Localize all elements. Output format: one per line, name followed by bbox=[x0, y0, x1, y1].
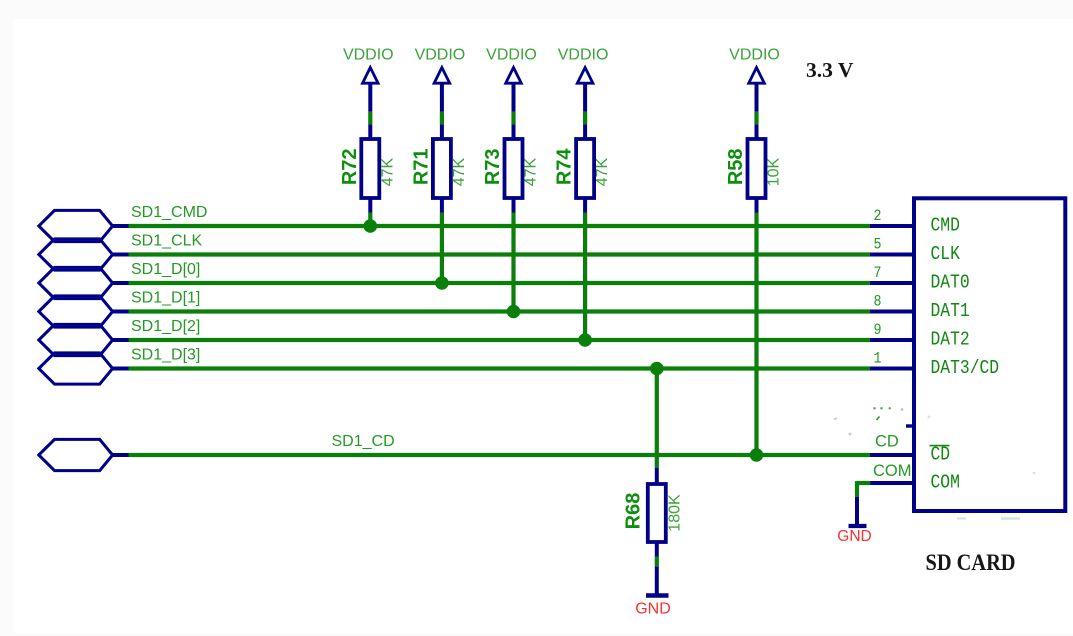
wire net SD1_CLK bbox=[129, 252, 871, 256]
wire R58 to net bbox=[754, 213, 758, 456]
svg-text:SD1_CMD: SD1_CMD bbox=[131, 204, 207, 221]
resistor R74 bbox=[554, 124, 594, 212]
junction at R73 column bbox=[507, 305, 521, 319]
svg-text:8: 8 bbox=[874, 293, 882, 311]
wire COM to GND bbox=[857, 481, 870, 524]
unconnected pin stub (WP) bbox=[906, 424, 914, 427]
resistor R73 bbox=[482, 124, 522, 212]
port connector for net SD1_CMD bbox=[39, 210, 129, 241]
pin stub pin 8 of SD CARD bbox=[870, 310, 914, 314]
svg-text:R68: R68 bbox=[622, 493, 644, 530]
svg-text:R72: R72 bbox=[339, 148, 361, 185]
power symbol VDDIO (R73 column) bbox=[486, 46, 537, 112]
wire net SD1_D[3] bbox=[129, 366, 871, 370]
artifact marks bbox=[834, 407, 1035, 518]
wire VDDIO to R71 bbox=[440, 112, 444, 125]
svg-text:3.3 V: 3.3 V bbox=[806, 58, 854, 82]
svg-text:1: 1 bbox=[874, 350, 882, 368]
power symbol VDDIO (R72 column) bbox=[343, 46, 394, 112]
pin stub pin 5 of SD CARD bbox=[870, 253, 914, 257]
svg-text:GND: GND bbox=[837, 528, 871, 545]
wire R68 to GND bbox=[655, 557, 659, 594]
pin stub pin 7 of SD CARD bbox=[870, 281, 914, 285]
svg-text:SD1_CLK: SD1_CLK bbox=[131, 233, 202, 250]
svg-text:R71: R71 bbox=[411, 148, 433, 185]
svg-text:47K: 47K bbox=[594, 157, 611, 186]
ground GND (COM) bbox=[837, 526, 871, 545]
junction at R71 column bbox=[435, 276, 449, 290]
svg-text:CD: CD bbox=[931, 444, 951, 466]
wire net SD1_D[1] bbox=[129, 309, 871, 313]
power symbol VDDIO (R71 column) bbox=[415, 46, 466, 112]
svg-text:CLK: CLK bbox=[931, 243, 961, 265]
svg-text:47K: 47K bbox=[523, 157, 540, 186]
svg-text:SD1_D[0]: SD1_D[0] bbox=[131, 261, 200, 278]
wire net SD1_D[2] bbox=[129, 338, 871, 342]
pin stub pin 2 of SD CARD bbox=[870, 224, 914, 228]
svg-text:VDDIO: VDDIO bbox=[486, 46, 537, 63]
port connector for net SD1_D[2] bbox=[39, 324, 129, 355]
svg-text:VDDIO: VDDIO bbox=[415, 46, 466, 63]
svg-text:DAT0: DAT0 bbox=[931, 272, 970, 294]
svg-text:SD1_D[3]: SD1_D[3] bbox=[131, 347, 200, 364]
pin stub pin 1 of SD CARD bbox=[870, 367, 914, 371]
wire R72 to net bbox=[368, 213, 372, 227]
svg-text:R73: R73 bbox=[482, 148, 504, 185]
resistor R58 bbox=[725, 124, 765, 212]
svg-text:47K: 47K bbox=[379, 157, 396, 186]
resistor R72 bbox=[339, 124, 379, 212]
pin stub pin CD of SD CARD bbox=[870, 453, 914, 457]
svg-text:COM: COM bbox=[931, 472, 960, 494]
svg-text:CMD: CMD bbox=[931, 215, 960, 237]
svg-text:GND: GND bbox=[635, 601, 671, 618]
junction at R68 column on SD1_D[3] bbox=[650, 362, 664, 376]
svg-text:180K: 180K bbox=[666, 494, 683, 532]
svg-text:COM: COM bbox=[873, 462, 912, 480]
junction at R72 column bbox=[364, 219, 378, 233]
port connector for net SD1_D[3] bbox=[39, 353, 129, 384]
svg-text:VDDIO: VDDIO bbox=[558, 46, 609, 63]
ground GND (R68) bbox=[635, 596, 671, 618]
svg-text:5: 5 bbox=[874, 236, 882, 254]
svg-text:R58: R58 bbox=[725, 148, 747, 185]
junction at R58 column bbox=[750, 448, 764, 462]
svg-text:R74: R74 bbox=[554, 148, 576, 186]
port connector for net SD1_CD bbox=[39, 439, 129, 470]
pin name CD (active low) bbox=[930, 444, 951, 466]
wire VDDIO to R72 bbox=[368, 112, 372, 125]
wire net SD1_CMD bbox=[129, 224, 871, 228]
resistor R71 bbox=[411, 124, 451, 212]
wire R74 to net bbox=[583, 213, 587, 341]
wire net SD1_CD bbox=[129, 453, 871, 457]
power symbol VDDIO (R58 column) bbox=[729, 46, 780, 112]
wire R71 to net bbox=[440, 213, 444, 284]
wire VDDIO to R73 bbox=[511, 112, 515, 125]
wire net SD1_D[0] bbox=[129, 281, 871, 285]
wire VDDIO to R74 bbox=[583, 112, 587, 125]
resistor R68 bbox=[622, 468, 665, 557]
svg-text:CD: CD bbox=[875, 433, 899, 451]
svg-text:2: 2 bbox=[874, 207, 882, 225]
svg-text:VDDIO: VDDIO bbox=[729, 46, 780, 63]
svg-text:7: 7 bbox=[874, 264, 882, 282]
svg-text:VDDIO: VDDIO bbox=[343, 46, 394, 63]
wire R73 to net bbox=[511, 213, 515, 312]
port connector for net SD1_D[0] bbox=[39, 267, 129, 298]
svg-text:DAT2: DAT2 bbox=[931, 329, 970, 351]
wire VDDIO to R58 bbox=[754, 112, 758, 125]
svg-text:DAT1: DAT1 bbox=[931, 300, 970, 322]
wire SD1_D[3] to R68 bbox=[655, 369, 659, 468]
svg-text:DAT3/CD: DAT3/CD bbox=[931, 357, 1000, 379]
pin stub pin COM of SD CARD bbox=[869, 481, 915, 485]
power symbol VDDIO (R74 column) bbox=[558, 46, 609, 112]
port connector for net SD1_CLK bbox=[39, 239, 129, 270]
pin stub pin 9 of SD CARD bbox=[870, 338, 914, 342]
junction at R74 column bbox=[578, 333, 592, 347]
component SD CARD body bbox=[914, 198, 1065, 511]
svg-text:SD1_D[1]: SD1_D[1] bbox=[131, 290, 200, 307]
port connector for net SD1_D[1] bbox=[39, 296, 129, 327]
svg-text:10K: 10K bbox=[766, 157, 783, 186]
svg-text:47K: 47K bbox=[451, 157, 468, 186]
svg-text:SD CARD: SD CARD bbox=[926, 550, 1016, 575]
svg-text:SD1_D[2]: SD1_D[2] bbox=[131, 318, 200, 335]
svg-text:9: 9 bbox=[874, 321, 882, 339]
svg-text:SD1_CD: SD1_CD bbox=[332, 433, 395, 450]
